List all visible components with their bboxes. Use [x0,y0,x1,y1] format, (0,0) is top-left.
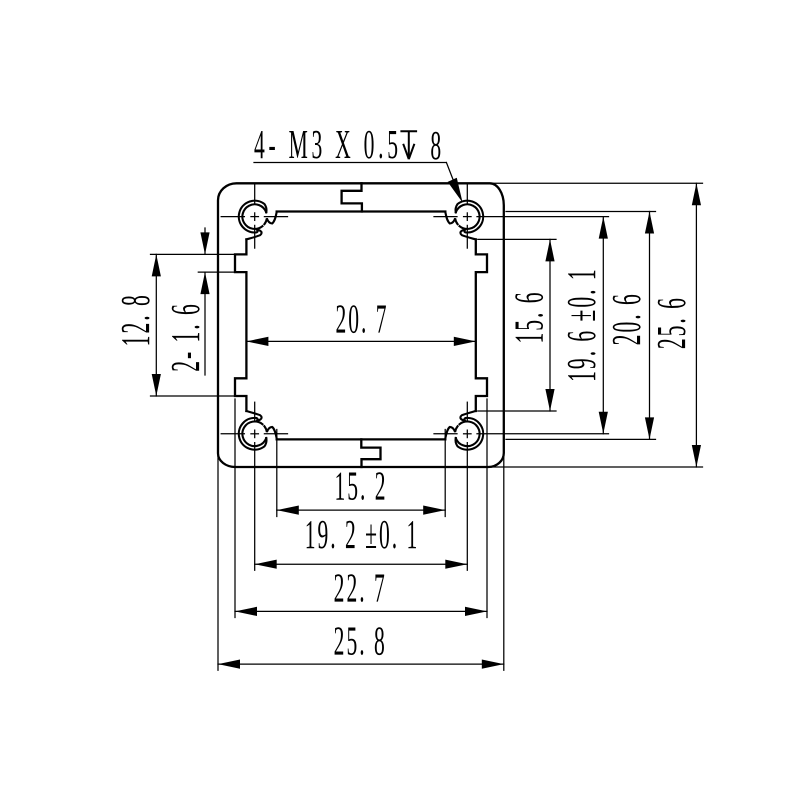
svg-text:25. 6: 25. 6 [650,296,695,349]
extension line outer left down (25.8) [217,452,219,670]
dimension 2-1.6 lower line [204,272,206,375]
extension line top inner wall right (20.6) [506,211,656,213]
screw boss top-left (M3 screw port) [239,201,277,240]
dimension 25.6 arrows [692,183,701,205]
dimension 25.6 line [695,183,697,467]
dimension 2-1.6 arrows [200,232,209,254]
dimension 20.7 arrows [246,337,268,346]
dimension 19.6 arrows [599,217,608,239]
centerline bottom-left boss vertical (extends to 19.2 dim) [254,402,256,421]
left inner wall with grooves [235,239,246,411]
dimension 20.6 line [649,212,651,440]
svg-text:22. 7: 22. 7 [334,566,387,611]
svg-text:15. 2: 15. 2 [334,464,387,509]
dimension 15.6 arrows [545,239,554,261]
svg-text:19. 2 ±0. 1: 19. 2 ±0. 1 [305,513,419,558]
callout underline [254,162,446,164]
svg-text:20. 7: 20. 7 [335,297,388,342]
callout leader line [446,163,459,197]
extension line right claw edge bottom (15.2) [444,430,446,517]
centerline top-left boss horizontal [221,216,244,218]
top wall C-slit [342,183,362,211]
svg-text:19. 6 ±0. 1: 19. 6 ±0. 1 [560,267,605,381]
svg-text:12. 8: 12. 8 [114,293,159,346]
dimension 20.6 arrows [645,212,654,234]
extension line left claw edge bottom (15.2) [276,430,278,517]
extension line outer right down (25.8) [503,452,505,670]
centerline top-right boss vertical [466,184,468,204]
extension line bottom inner wall right (20.6) [506,438,656,440]
svg-text:20. 6: 20. 6 [605,292,650,345]
dimension 19.2 arrows [255,560,277,569]
dimension 22.7 line [235,610,487,612]
dimension 19.2 line [255,563,468,565]
screw boss bottom-left (M3 screw port) [239,411,277,450]
dimension 20.7 line [246,340,475,342]
extension line right groove bottom down (22.7) [486,399,488,618]
bottom wall C-slit [361,439,380,467]
dimension 19.6 line [602,217,604,434]
right inner wall with grooves [476,239,487,411]
screw boss top-right (M3 screw port) [445,201,483,240]
top inner wall line [277,210,446,212]
dimension 25.8 arrows [218,660,240,669]
dimension 12.8 line [155,254,157,396]
screw boss bottom-right (M3 screw port) [445,411,483,450]
extension line left groove bottom down (22.7) [234,399,236,618]
extension line outer bottom right (25.6) [489,466,703,468]
extension line groove2 bottom edge (12.8) [151,395,247,397]
callout depth symbol [400,131,417,159]
dimension 22.7 arrows [235,607,257,616]
extension line outer top right (25.6) [491,182,703,184]
dimension 25.8 line [218,663,504,665]
svg-text:2- 1. 6: 2- 1. 6 [164,302,209,372]
centerline top-left boss vertical [254,184,256,204]
dimension 2-1.6 upper line [204,228,206,254]
extension line bottom claw edge right (15.6) [478,410,556,412]
extension line groove top edge (12.8 / 2-1.6) [151,253,247,255]
extension line top claw edge right (15.6) [478,238,556,240]
svg-text:4- M3 X 0.5: 4- M3 X 0.5 [254,123,402,168]
dimension 12.8 arrows [152,254,161,276]
outer profile rounded rectangle [218,183,504,467]
centerline bottom-left boss horizontal [221,433,244,435]
dimension 15.6 line [549,239,551,411]
dimension 15.2 arrows [277,506,299,515]
extension line groove1 bottom edge (2-1.6) [198,271,246,273]
dimension 15.2 line [277,509,445,511]
bottom inner wall line [277,438,446,440]
svg-text:15. 6: 15. 6 [507,290,552,343]
callout leader arrow [448,178,463,203]
centerline bottom-right boss vertical (extends to 19.2 dim) [466,402,468,421]
svg-text:25. 8: 25. 8 [334,619,387,664]
centerline top-right boss horizontal (extends to 19.6 dim) [434,216,457,218]
centerline bottom-right boss horizontal (extends to 19.6 dim) [434,433,457,435]
